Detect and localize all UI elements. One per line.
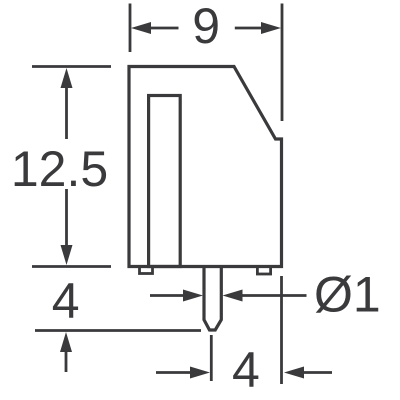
dimension 4 bottom: right extension line	[280, 276, 283, 384]
dimension 12.5: bottom arrow	[65, 189, 68, 247]
dimension 9: left arrow	[149, 27, 179, 30]
left mounting foot	[140, 267, 153, 274]
svg-text:Ø1: Ø1	[314, 267, 381, 323]
right mounting foot	[257, 267, 270, 275]
svg-text:4: 4	[52, 273, 80, 329]
dimension 4 left: outside up arrow	[65, 350, 68, 372]
svg-text:12.5: 12.5	[11, 141, 108, 197]
dimension 4 bottom: left outside arrow	[156, 371, 191, 374]
dimension 4 left: pin-tip extension line	[35, 329, 201, 332]
dimension 4 bottom: right outside arrow	[303, 371, 332, 374]
dimension 4 bottom: pin-center extension line	[210, 335, 213, 381]
dimension 12.5: top extension line	[32, 65, 111, 68]
dimension 9: left extension line	[129, 4, 132, 53]
dimension 9: right extension line	[281, 4, 284, 122]
dimension Ø1: left arrow	[150, 294, 185, 297]
solder pin	[204, 267, 221, 331]
dimension 12.5: bottom extension line	[32, 265, 111, 268]
svg-text:9: 9	[192, 0, 220, 54]
svg-text:4: 4	[232, 342, 260, 398]
dimension 12.5: top arrow	[65, 86, 68, 139]
dimension Ø1: right arrow	[240, 294, 307, 297]
dimension 9: right arrow	[235, 27, 263, 30]
connector body outline	[129, 67, 282, 267]
wire-entry slot	[149, 96, 181, 267]
